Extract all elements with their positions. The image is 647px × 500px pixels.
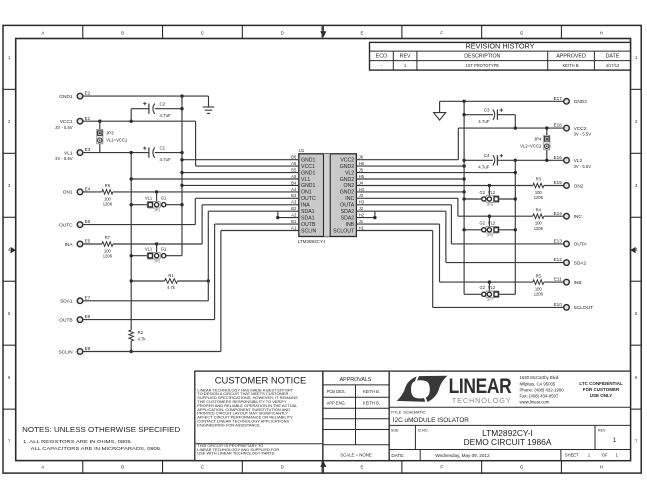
svg-text:J3: J3	[359, 193, 364, 198]
capacitor C2 4.7uF	[131, 102, 184, 122]
svg-text:A4: A4	[291, 187, 297, 192]
svg-text:VL2: VL2	[488, 285, 496, 290]
svg-text:1630 McCarthy Blvd.: 1630 McCarthy Blvd.	[520, 375, 560, 380]
svg-text:SDA1: SDA1	[301, 209, 315, 215]
svg-text:E2: E2	[85, 91, 91, 96]
svg-text:4.7uF: 4.7uF	[478, 119, 490, 124]
capacitor C4 4.7uF	[462, 153, 503, 169]
svg-text:H: H	[600, 30, 603, 35]
svg-text:1. ALL RESISTORS ARE IN OHMS,: 1. ALL RESISTORS ARE IN OHMS, 0805.	[23, 439, 132, 444]
svg-text:KEITH B.: KEITH B.	[563, 63, 580, 68]
svg-text:B5: B5	[291, 168, 297, 173]
svg-text:VL2: VL2	[345, 170, 354, 176]
jumper JP4 VL2=VCC2	[520, 128, 550, 160]
svg-text:CUSTOMER NOTICE: CUSTOMER NOTICE	[215, 375, 307, 386]
svg-text:GND2: GND2	[340, 177, 355, 183]
connector E12 (SDA2)	[554, 257, 587, 266]
resistor R2 4.7k	[129, 330, 146, 342]
svg-text:A1: A1	[291, 225, 297, 230]
Linear Technology logo	[397, 374, 623, 405]
svg-text:J6: J6	[359, 155, 364, 160]
svg-text:1206: 1206	[534, 226, 544, 231]
svg-text:DATE:: DATE:	[391, 453, 404, 458]
svg-text:C: C	[201, 30, 204, 35]
svg-text:3V - 5.5V: 3V - 5.5V	[55, 156, 73, 161]
connector E11 (INB)	[554, 277, 582, 286]
svg-text:INB: INB	[574, 280, 582, 286]
wire net SDA2: pins J2/H2 to E12	[356, 211, 563, 262]
svg-text:VL1: VL1	[145, 247, 153, 252]
customer notice box	[195, 371, 323, 461]
svg-text:E12: E12	[554, 257, 563, 262]
connector E18 (VCC2)	[554, 123, 592, 137]
svg-text:APPROVED: APPROVED	[556, 54, 586, 60]
svg-text:TECHNOLOGY: TECHNOLOGY	[452, 396, 512, 405]
wire net VCC1: E1 to pin A6	[83, 120, 299, 167]
svg-text:SIZE: SIZE	[391, 429, 400, 433]
svg-text:R7: R7	[105, 235, 111, 240]
wire net VL1: E3 row, VL1 rail, pin A5	[83, 151, 299, 330]
svg-text:U1: U1	[299, 148, 305, 153]
svg-text:D: D	[281, 465, 284, 470]
svg-text:1: 1	[613, 437, 617, 444]
svg-text:H: H	[600, 465, 603, 470]
svg-text:ON2: ON2	[574, 183, 584, 189]
connector E15 (ON2)	[554, 180, 584, 189]
svg-text:LTM2892CY-I: LTM2892CY-I	[298, 239, 326, 244]
ground GND1 symbol	[203, 107, 215, 113]
svg-text:4.7k: 4.7k	[167, 285, 176, 290]
svg-text:R1: R1	[168, 273, 174, 278]
svg-text:H3: H3	[359, 200, 365, 205]
svg-text:H5: H5	[359, 174, 365, 179]
svg-text:JP3: JP3	[106, 131, 114, 136]
wire net OUTC: E6 to pin B3	[83, 198, 299, 224]
svg-text:OUTC: OUTC	[59, 222, 73, 228]
svg-text:GND1: GND1	[301, 158, 316, 164]
ground GND2 symbol (triangle)	[434, 113, 446, 121]
svg-text:1206: 1206	[103, 254, 113, 259]
svg-text:INC: INC	[345, 196, 354, 202]
svg-text:OUTB: OUTB	[301, 222, 316, 228]
svg-text:LTC CONFIDENTIAL: LTC CONFIDENTIAL	[579, 381, 622, 386]
svg-text:C1: C1	[160, 146, 166, 151]
svg-text:SDA1: SDA1	[60, 299, 73, 305]
svg-text:OUTA: OUTA	[340, 203, 355, 209]
svg-text:OUTC: OUTC	[301, 196, 316, 202]
resistor R7 100 1206	[102, 235, 113, 258]
svg-text:VL1: VL1	[145, 196, 153, 201]
svg-text:GND2: GND2	[340, 190, 355, 196]
svg-text:VL2: VL2	[488, 221, 496, 226]
wire net INB: pin J1 through R5 to E11	[356, 224, 563, 284]
svg-text:4.7uF: 4.7uF	[160, 157, 172, 162]
connector E9 (OUTB)	[59, 314, 90, 323]
svg-text:R4: R4	[536, 207, 542, 212]
svg-text:GND2: GND2	[574, 99, 588, 105]
svg-text:E: E	[361, 465, 364, 470]
resistor R1 4.7k	[165, 273, 178, 290]
svg-text:3V - 5.5V: 3V - 5.5V	[55, 125, 73, 130]
resistor R3 100 1206	[533, 177, 544, 200]
svg-text:J4: J4	[359, 180, 364, 185]
resistor R5 100 1206	[533, 273, 544, 296]
svg-text:J2: J2	[359, 206, 364, 211]
resistor R6 100 1206	[102, 183, 113, 206]
svg-text:VL1: VL1	[301, 177, 310, 183]
svg-text:SDA2: SDA2	[574, 260, 587, 266]
notes text	[22, 425, 181, 451]
connector E4 (ON1)	[63, 187, 91, 196]
svg-text:INA: INA	[65, 242, 74, 248]
connector E7 (SDA1)	[60, 295, 91, 304]
svg-text:R6: R6	[105, 183, 111, 188]
svg-text:SDA2: SDA2	[341, 209, 355, 215]
svg-text:E15: E15	[554, 180, 563, 185]
svg-text:REVISION HISTORY: REVISION HISTORY	[465, 42, 534, 51]
svg-text:G: G	[520, 465, 524, 470]
title block	[389, 371, 630, 461]
svg-text:J5: J5	[359, 168, 364, 173]
resistor R4 100 1206	[533, 207, 544, 230]
svg-text:F: F	[440, 30, 443, 35]
svg-text:KEITH B.: KEITH B.	[363, 400, 380, 405]
svg-text:G2: G2	[480, 190, 486, 195]
svg-text:USE ONLY: USE ONLY	[590, 393, 613, 398]
svg-text:G: G	[520, 30, 524, 35]
svg-text:PCB DES.: PCB DES.	[327, 389, 346, 394]
svg-text:DEMO CIRCUIT 1986A: DEMO CIRCUIT 1986A	[464, 437, 552, 447]
svg-text:ALL CAPACITORS ARE IN MICROFAR: ALL CAPACITORS ARE IN MICROFARADS, 0805.	[31, 446, 162, 451]
svg-text:E11: E11	[554, 277, 562, 282]
wire net ON2: pin J4 through R3 to E15	[356, 184, 563, 187]
svg-text:VL2=VCC2: VL2=VCC2	[520, 143, 542, 148]
svg-text:4.7k: 4.7k	[138, 337, 147, 342]
svg-text:B4: B4	[291, 180, 297, 185]
wire net SDA1: E7 to pins B2/A2	[83, 211, 299, 301]
svg-text:J1: J1	[359, 219, 364, 224]
svg-text:E3: E3	[85, 147, 91, 152]
connector E6 (OUTC)	[59, 219, 91, 228]
svg-text:Wednesday, May 09, 2012: Wednesday, May 09, 2012	[435, 453, 490, 458]
svg-text:SCALE = NONE: SCALE = NONE	[340, 452, 372, 457]
svg-text:SHEET: SHEET	[565, 452, 579, 457]
svg-text:E5: E5	[85, 239, 91, 244]
svg-text:E: E	[361, 30, 364, 35]
svg-text:E16: E16	[554, 155, 563, 160]
jumper JP5 (G2 / VL2)	[462, 186, 517, 207]
svg-text:A: A	[41, 30, 44, 35]
svg-text:USE WITH LINEAR TECHNOLOGY PAR: USE WITH LINEAR TECHNOLOGY PARTS.	[197, 451, 275, 456]
connector E2 (GND1)	[59, 91, 90, 100]
svg-text:E13: E13	[554, 239, 563, 244]
jumper JP3 VL1=VCC1	[97, 121, 128, 152]
connector E3 (VL1)	[55, 147, 91, 161]
svg-text:GND1: GND1	[59, 94, 73, 100]
svg-text:B3: B3	[291, 193, 297, 198]
svg-text:G2: G2	[480, 285, 486, 290]
svg-text:ON2: ON2	[344, 183, 355, 189]
svg-text:I2C uMODULE ISOLATOR: I2C uMODULE ISOLATOR	[393, 417, 470, 424]
svg-text:INB: INB	[346, 222, 355, 228]
svg-text:APP ENG.: APP ENG.	[327, 400, 346, 405]
svg-text:E6: E6	[85, 219, 91, 224]
svg-text:1206: 1206	[103, 202, 113, 207]
svg-text:A2: A2	[291, 213, 297, 218]
svg-text:Fax: (408) 434-0507: Fax: (408) 434-0507	[520, 394, 560, 399]
wire net INA: E5 through R7 to pin A3	[83, 205, 299, 246]
svg-text:APPROVALS: APPROVALS	[340, 377, 372, 383]
svg-text:DESCRIPTION: DESCRIPTION	[464, 54, 500, 60]
svg-text:GND1: GND1	[301, 183, 316, 189]
svg-text:4/17/12: 4/17/12	[606, 63, 620, 68]
svg-text:4.7uF: 4.7uF	[160, 113, 172, 118]
svg-text:KEITH B.: KEITH B.	[363, 389, 380, 394]
svg-text:TITLE: SCHEMATIC: TITLE: SCHEMATIC	[391, 410, 426, 414]
svg-text:A6: A6	[291, 161, 297, 166]
svg-text:VL1=VCC1: VL1=VCC1	[106, 138, 128, 143]
IC U1 LTM2892CY-I uModule isolator	[298, 148, 357, 244]
svg-text:1206: 1206	[534, 195, 544, 200]
revision history table	[370, 42, 631, 70]
capacitor C3 4.7uF	[462, 108, 515, 129]
svg-text:www.linear.com: www.linear.com	[520, 400, 550, 405]
svg-text:H1: H1	[359, 225, 365, 230]
connector E17 (GND2)	[554, 96, 588, 105]
svg-text:E17: E17	[554, 96, 563, 101]
svg-text:REV: REV	[400, 54, 411, 60]
svg-text:E9: E9	[85, 314, 91, 319]
svg-text:OUTA: OUTA	[574, 242, 588, 248]
svg-text:SCLIN: SCLIN	[58, 349, 73, 355]
svg-text:JP4: JP4	[534, 136, 542, 141]
wire net OUTB: E9 to pin B1	[83, 224, 299, 320]
approvals table	[323, 371, 389, 461]
svg-text:ENGINEERING FOR ASSISTANCE.: ENGINEERING FOR ASSISTANCE.	[197, 422, 261, 427]
svg-text:C3: C3	[484, 108, 490, 113]
wire net GND2: E17 row, rail	[356, 100, 563, 295]
svg-text:A3: A3	[291, 200, 297, 205]
svg-text:E14: E14	[554, 211, 563, 216]
svg-text:ECO: ECO	[376, 54, 387, 60]
wire net SCLIN: E8 to pin A1, R2 pull-up	[83, 231, 299, 354]
svg-text:INC: INC	[574, 214, 583, 220]
svg-text:Milpitas, CA 95035: Milpitas, CA 95035	[520, 381, 556, 386]
svg-text:OF: OF	[602, 452, 608, 457]
svg-text:E4: E4	[85, 187, 91, 192]
svg-text:D: D	[281, 30, 284, 35]
svg-text:B: B	[121, 30, 124, 35]
wire net VL2: E16 row, VL2 rail, pin J5	[356, 159, 563, 295]
svg-text:VCC1: VCC1	[301, 164, 315, 170]
svg-text:E7: E7	[85, 295, 91, 300]
svg-text:GND2: GND2	[340, 164, 355, 170]
wire net SCLOUT: pin H1 to E10	[356, 231, 563, 308]
svg-text:4.7uF: 4.7uF	[478, 164, 490, 169]
svg-text:DATE: DATE	[606, 54, 620, 60]
svg-text:VL2: VL2	[488, 190, 496, 195]
svg-text:SDA2: SDA2	[341, 215, 355, 221]
svg-text:B2: B2	[291, 206, 297, 211]
wire net OUTA: pin H3 to E13	[356, 205, 563, 244]
svg-text:3V - 5.5V: 3V - 5.5V	[574, 132, 592, 137]
svg-text:E8: E8	[85, 346, 91, 351]
svg-text:R5: R5	[536, 273, 542, 278]
svg-text:G1: G1	[161, 196, 167, 201]
wire net GND1: E2 row, rail, ground symbol	[83, 94, 299, 255]
svg-text:JP5: JP5	[486, 202, 493, 207]
connector E5 (INA)	[65, 239, 91, 248]
svg-text:C2: C2	[160, 102, 166, 107]
svg-text:C: C	[201, 465, 204, 470]
connector E13 (OUTA)	[554, 239, 588, 248]
svg-text:JP7: JP7	[486, 297, 493, 302]
svg-text:VCC2: VCC2	[340, 158, 354, 164]
jumper JP7 (G2 / VL2)	[464, 282, 515, 302]
svg-text:REV.: REV.	[598, 429, 606, 433]
connector E1 (VCC1)	[55, 116, 91, 130]
svg-text:SCLOUT: SCLOUT	[333, 228, 355, 234]
wire net ON1: E4 through R6 to pin A4	[83, 190, 299, 193]
svg-text:B: B	[121, 465, 124, 470]
capacitor C1 4.7uF	[143, 146, 184, 162]
svg-text:G1: G1	[161, 247, 167, 252]
svg-text:H2: H2	[359, 213, 365, 218]
connector E10 (SCLOUT)	[554, 302, 594, 311]
svg-text:GND1: GND1	[301, 170, 316, 176]
svg-text:SCLIN: SCLIN	[301, 228, 317, 234]
svg-text:H6: H6	[359, 161, 365, 166]
jumper JP2 (VL1 / G1)	[130, 244, 183, 264]
svg-text:JP2: JP2	[154, 259, 161, 264]
connector E16 (VL2)	[554, 155, 592, 169]
svg-text:G2: G2	[480, 221, 486, 226]
svg-text:OUTB: OUTB	[59, 317, 72, 323]
svg-text:H4: H4	[359, 187, 365, 192]
svg-text:R3: R3	[536, 177, 542, 182]
svg-text:JP6: JP6	[486, 233, 493, 238]
svg-text:INA: INA	[301, 203, 310, 209]
svg-text:NOTES: UNLESS OTHERWISE SPECI: NOTES: UNLESS OTHERWISE SPECIFIED	[22, 425, 181, 434]
svg-text:SDA1: SDA1	[301, 215, 315, 221]
svg-text:SCLOUT: SCLOUT	[574, 305, 594, 311]
svg-text:B6: B6	[291, 155, 297, 160]
jumper JP1 (VL1 / G1)	[130, 192, 184, 213]
svg-text:ON1: ON1	[301, 190, 312, 196]
wire net INC: pin J3 through R4 to E14	[356, 198, 563, 218]
svg-text:E18: E18	[554, 123, 563, 128]
svg-text:1ST PROTOTYPE: 1ST PROTOTYPE	[465, 63, 499, 68]
svg-text:B1: B1	[291, 219, 297, 224]
connector E14 (INC)	[554, 211, 583, 220]
svg-text:1206: 1206	[534, 292, 544, 297]
wire net R1 pull-up	[130, 279, 211, 282]
svg-text:A: A	[41, 465, 44, 470]
svg-text:FOR CUSTOMER: FOR CUSTOMER	[583, 387, 620, 392]
svg-text:R2: R2	[138, 330, 144, 335]
svg-text:IC NO.: IC NO.	[418, 429, 429, 433]
svg-text:LINEAR: LINEAR	[449, 374, 512, 398]
svg-text:Phone: (408) 432-1900: Phone: (408) 432-1900	[520, 387, 565, 392]
svg-text:E10: E10	[554, 302, 563, 307]
connector E8 (SCLIN)	[58, 346, 90, 355]
svg-text:JP1: JP1	[154, 208, 161, 213]
svg-text:ON1: ON1	[63, 190, 73, 196]
svg-text:F: F	[440, 465, 443, 470]
wire net VCC2: E18 to pin J6	[356, 126, 563, 159]
jumper JP6 (G2 / VL2)	[462, 216, 517, 238]
svg-text:A5: A5	[291, 174, 297, 179]
svg-text:E1: E1	[85, 116, 91, 121]
svg-text:3V - 5.5V: 3V - 5.5V	[574, 164, 592, 169]
svg-text:C4: C4	[484, 153, 490, 158]
